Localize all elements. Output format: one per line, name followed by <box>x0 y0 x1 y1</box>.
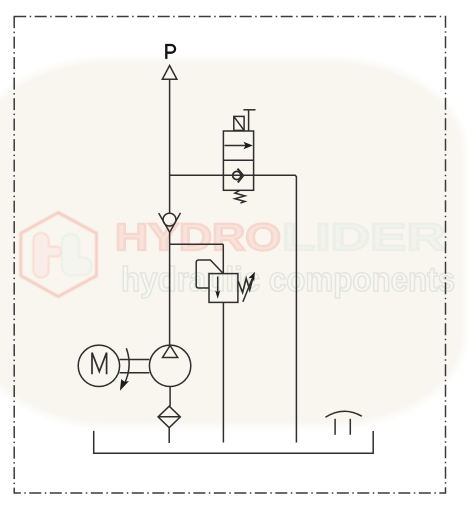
relief valve RV1 adjustable spring <box>238 277 253 293</box>
port label P <box>166 45 175 59</box>
filter F1 <box>158 406 180 428</box>
svg-text:LIDER: LIDER <box>282 217 446 259</box>
wire: main pressure line upper (P to check valve) <box>169 79 171 213</box>
solenoid valve U1 flow arrow <box>225 145 248 147</box>
wire: solenoid valve through line <box>223 174 253 176</box>
solenoid valve U1 return spring <box>235 190 245 203</box>
tank T1 <box>94 431 374 453</box>
pump P1 <box>149 345 190 386</box>
wire: branch to solenoid valve <box>170 174 224 176</box>
solenoid valve U1 check seat <box>238 169 244 183</box>
check valve V1 circle <box>163 213 176 226</box>
wire: pump suction line <box>169 387 171 407</box>
check valve V1 seat <box>159 213 181 233</box>
electric motor M1 <box>78 345 119 386</box>
watermark logo hexagon <box>21 213 97 297</box>
breather B1 <box>326 411 362 417</box>
solenoid valve U1 position divider <box>223 159 253 161</box>
wire: main pressure line lower (check valve to pump) <box>169 233 171 346</box>
solenoid coil S1 <box>234 116 244 130</box>
coupling shaft <box>120 359 150 361</box>
svg-text:hydraulic components: hydraulic components <box>121 261 455 299</box>
wire: solenoid valve to tank drop <box>254 175 297 442</box>
solenoid valve U1 body <box>223 131 253 190</box>
watermark logo letter H <box>34 234 60 278</box>
svg-text:HYDRO: HYDRO <box>115 217 281 259</box>
relief valve RV1 body <box>209 274 238 303</box>
relief valve RV1 flow arrow <box>217 277 219 294</box>
watermark logo letter L <box>63 235 92 275</box>
rotation direction arrow <box>124 348 130 385</box>
port P triangle <box>162 66 177 80</box>
manual override lever <box>248 110 250 131</box>
relief valve RV1 pilot line <box>196 260 223 288</box>
wire: branch to relief valve <box>170 243 224 245</box>
solenoid valve U1 check ball <box>233 171 241 179</box>
pump P1 outlet triangle <box>163 346 178 358</box>
motor letter M <box>92 353 107 375</box>
wire: relief valve supply drop <box>222 244 224 273</box>
wire: relief valve drain to tank <box>222 302 224 442</box>
wire: filter to tank <box>168 428 170 443</box>
